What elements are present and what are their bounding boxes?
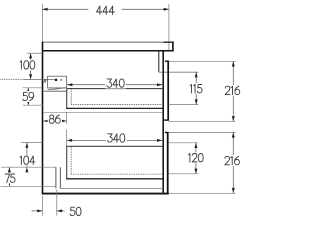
dim 216 lower ext top xyxy=(169,131,236,133)
upper drawer front bottom cap xyxy=(163,119,169,121)
dim 50 ext line right xyxy=(56,190,58,216)
countertop slab right edge xyxy=(172,42,174,52)
countertop slab top right thick segment xyxy=(164,41,174,43)
top rail back face xyxy=(158,51,160,72)
countertop slab bottom edge xyxy=(42,50,174,52)
bracket back leg line xyxy=(59,167,61,188)
upper drawer front face xyxy=(167,61,169,120)
centerline break mark xyxy=(44,79,47,82)
top rail bottom / 115 top ext line xyxy=(159,71,199,73)
lower drawer box back xyxy=(66,146,68,179)
label 115 xyxy=(188,83,203,94)
slide cross mark xyxy=(60,79,62,81)
dim 120 ext bottom xyxy=(169,173,199,175)
dim 340 upper ext left xyxy=(66,82,68,90)
dim 340 lower ext left xyxy=(66,130,68,147)
dim 115 line xyxy=(195,72,197,104)
label 120 xyxy=(187,152,205,163)
label 100 xyxy=(18,60,36,71)
dim 50 line right tail xyxy=(57,210,65,212)
dim 444 arrows xyxy=(42,8,47,11)
centerline dash-dot xyxy=(1,78,24,80)
dim 75 line xyxy=(8,167,10,186)
upper drawer hidden bottom dotted xyxy=(71,104,162,106)
upper drawer front top cap xyxy=(165,60,169,62)
dim 86 line xyxy=(43,120,66,122)
cabinet bottom top face line xyxy=(60,188,162,190)
dim 216 upper line xyxy=(232,61,234,121)
upper drawer box back xyxy=(66,89,68,109)
upper drawer box bottom xyxy=(66,107,162,109)
dim 104 line xyxy=(26,143,28,168)
dim 59 line xyxy=(27,88,29,105)
upper drawer hidden back dotted xyxy=(70,89,72,104)
label 59 xyxy=(21,91,35,102)
lower drawer box top xyxy=(66,145,162,147)
countertop slab top edge xyxy=(43,41,174,43)
label 75 xyxy=(3,173,16,184)
cabinet bottom panel xyxy=(42,193,169,195)
ext line 59 top xyxy=(23,87,43,89)
slide rail bottom line xyxy=(44,90,67,92)
back panel xyxy=(42,42,44,195)
lower drawer hidden back dotted xyxy=(70,147,72,174)
label 444 xyxy=(88,5,121,16)
dim 120 ext top xyxy=(169,142,199,144)
label 340 xyxy=(106,133,127,144)
ext line 104/75 level xyxy=(1,166,56,168)
centerline solid segment xyxy=(23,78,55,80)
ext line 100 top xyxy=(27,52,42,54)
dim 216 upper ext bottom xyxy=(169,120,236,122)
dim 50 line left tail xyxy=(32,210,43,212)
dim 216 upper ext top xyxy=(169,60,236,62)
label 50 xyxy=(70,207,75,215)
label 104 xyxy=(18,155,36,166)
label 340 xyxy=(105,78,126,89)
dim 115 ext bottom xyxy=(169,104,199,106)
dim 120 line xyxy=(195,143,197,174)
dim 100 line xyxy=(30,53,32,79)
dim 444 extension line right xyxy=(168,4,170,50)
ext line 104 top xyxy=(21,142,42,144)
upper drawer box top xyxy=(66,88,162,90)
slide mechanism box xyxy=(48,76,67,88)
dim 340 lower line xyxy=(67,139,162,141)
drawer box front panel xyxy=(162,51,164,194)
slide pivot dot xyxy=(55,79,58,82)
dim 216 lower ext bottom xyxy=(168,192,235,194)
dim 444 line xyxy=(42,8,168,10)
label 216 xyxy=(224,85,242,96)
dim 50 ext line left xyxy=(41,196,43,216)
dim 86 ext right xyxy=(66,112,68,124)
lower drawer front face xyxy=(167,132,169,193)
lower drawer hidden bottom dotted xyxy=(71,173,162,175)
bracket front leg line xyxy=(55,167,57,188)
middle stretcher line xyxy=(44,112,163,114)
label 216 xyxy=(223,155,241,166)
label 86 xyxy=(48,114,63,125)
slide mechanism lever curve xyxy=(48,88,67,90)
lower drawer front top cap xyxy=(165,132,169,134)
dim 340 upper line xyxy=(67,84,162,86)
ext line 75 bottom xyxy=(1,185,57,187)
dim 444 extension line left xyxy=(41,4,43,42)
lower drawer box bottom xyxy=(66,178,162,180)
ext line 59 bottom xyxy=(23,104,44,106)
dim 216 lower line xyxy=(232,132,234,193)
